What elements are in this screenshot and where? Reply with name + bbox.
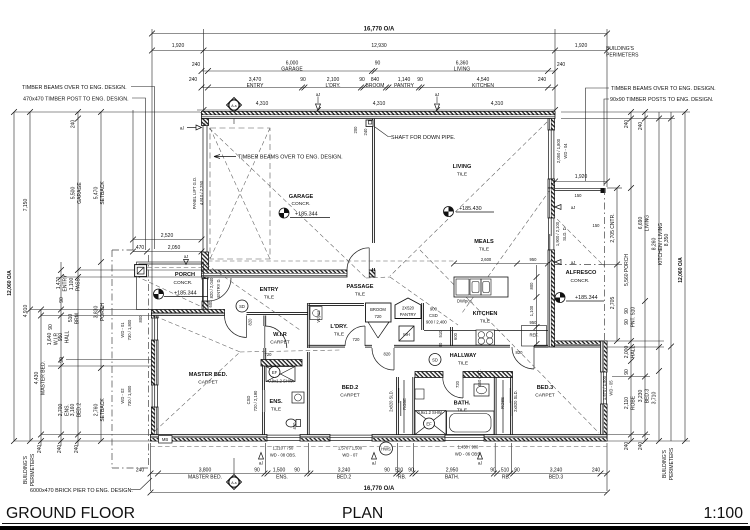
- wall bath/robe2 divider: [494, 377, 496, 435]
- roof dash master ridge: [240, 350, 340, 352]
- aJ marker garage nw: [180, 125, 202, 131]
- svg-text:90: 90: [300, 77, 306, 83]
- ens shower: [266, 367, 295, 382]
- wall garage west jambs: [202, 119, 209, 126]
- bottom dim row rooms: [136, 468, 610, 481]
- svg-text:WD - 01: WD - 01: [120, 322, 125, 338]
- svg-text:1,450 / 900: 1,450 / 900: [458, 445, 479, 450]
- fridge space: [522, 326, 547, 347]
- svg-text:WD - 07: WD - 07: [342, 453, 358, 458]
- wall top north: [202, 112, 556, 119]
- wall ens/bed2 divider: [307, 352, 309, 435]
- svg-text:4,910: 4,910: [23, 305, 29, 318]
- svg-text:510: 510: [395, 468, 404, 474]
- sink double bowl: [470, 279, 481, 295]
- svg-text:90: 90: [384, 468, 390, 474]
- svg-text:CSD: CSD: [246, 396, 251, 405]
- svg-text:240: 240: [538, 77, 547, 83]
- svg-text:12,060 O/A: 12,060 O/A: [678, 257, 684, 283]
- garage panel door dashed zone: [210, 128, 270, 259]
- wall bed2 north with 820 door: [365, 345, 372, 347]
- svg-text:PANTRY: PANTRY: [400, 312, 417, 317]
- right dim col 3 living/bed3: [638, 109, 651, 450]
- svg-text:2x820 SLD.: 2x820 SLD.: [513, 390, 518, 412]
- svg-text:90: 90: [359, 77, 365, 83]
- svg-text:730 / 1,800: 730 / 1,800: [127, 385, 132, 406]
- svg-text:aJ: aJ: [571, 260, 575, 265]
- svg-text:RB.: RB.: [398, 475, 406, 481]
- roof dash master hip lower: [155, 352, 240, 431]
- section marker A-s top: [227, 98, 242, 125]
- svg-text:1,100: 1,100: [529, 305, 534, 316]
- left dim col 5 garage: [71, 109, 84, 453]
- svg-text:BROOM: BROOM: [366, 83, 385, 89]
- svg-text:240: 240: [592, 468, 601, 474]
- svg-text:A-s: A-s: [231, 104, 237, 108]
- bottom dim 16,770 O/A: [148, 486, 610, 495]
- svg-text:PANEL LIFT G.D.: PANEL LIFT G.D.: [192, 177, 197, 209]
- svg-text:PERIMETERS: PERIMETERS: [30, 453, 36, 486]
- svg-text:90: 90: [417, 77, 423, 83]
- robe bed3 shelf: [502, 380, 504, 433]
- svg-text:PERIMETERS: PERIMETERS: [606, 53, 639, 59]
- alfresco north edge: [555, 187, 605, 189]
- svg-text:90: 90: [624, 319, 630, 325]
- window WD-05 bed3 east: [601, 372, 606, 404]
- svg-text:5,560 PORCH: 5,560 PORCH: [624, 254, 630, 286]
- svg-text:2,700: 2,700: [58, 404, 64, 417]
- svg-text:BED.3: BED.3: [645, 389, 651, 404]
- wall robe2/bed3 divider: [511, 377, 513, 435]
- svg-text:950: 950: [530, 257, 538, 262]
- wall ldry north: [308, 304, 364, 306]
- svg-text:240: 240: [638, 122, 644, 131]
- svg-text:240: 240: [638, 442, 644, 451]
- right dim col 4 kitchen/living 8,260 + 3,710: [652, 112, 665, 444]
- svg-text:450 CNT.: 450 CNT.: [477, 369, 482, 386]
- svg-text:4,310: 4,310: [373, 101, 386, 107]
- garage door X dashed: [210, 128, 270, 259]
- eaves dash south: [151, 446, 608, 448]
- svg-text:W.I.R: W.I.R: [273, 332, 287, 338]
- svg-text:950: 950: [530, 320, 538, 325]
- svg-text:SETBACK: SETBACK: [100, 398, 106, 422]
- svg-text:TILE: TILE: [355, 292, 365, 298]
- ef fan ens: [269, 367, 280, 378]
- left dim col 12,060 O/A: [7, 109, 17, 444]
- dim line entry/ldry/broom/pantry/kitchen: [189, 77, 558, 90]
- svg-text:PASSAGE: PASSAGE: [347, 284, 374, 290]
- svg-text:5,470: 5,470: [94, 187, 100, 200]
- robe bed2 shelf: [403, 380, 405, 433]
- svg-text:TILE: TILE: [479, 247, 489, 253]
- robe bed3 sliding doors: [509, 388, 511, 403]
- svg-text:WD - 05: WD - 05: [609, 380, 614, 396]
- svg-text:240: 240: [624, 442, 630, 451]
- svg-text:450: 450: [292, 422, 297, 430]
- kitchen island bench: [454, 277, 508, 297]
- beam dash over garage door: [208, 260, 455, 262]
- aJ markers top: [316, 92, 321, 111]
- svg-text:MH: MH: [403, 332, 409, 337]
- svg-text:4,310: 4,310: [256, 101, 269, 107]
- svg-text:SD: SD: [239, 304, 245, 309]
- svg-text:PNT.: PNT.: [631, 317, 637, 328]
- svg-text:LIVING: LIVING: [453, 164, 472, 170]
- shaft for downpipe box: [366, 120, 373, 127]
- svg-text:90: 90: [48, 324, 54, 330]
- svg-text:BUILDING'S: BUILDING'S: [662, 449, 668, 478]
- svg-text:3,710: 3,710: [652, 392, 658, 405]
- svg-text:2,050 / 1,800: 2,050 / 1,800: [556, 138, 561, 163]
- svg-text:GARAGE: GARAGE: [77, 182, 83, 204]
- level marker garage: [279, 208, 289, 218]
- svg-text:7,150: 7,150: [23, 199, 29, 212]
- svg-text:2,110: 2,110: [624, 397, 630, 409]
- svg-text:L'DRY.: L'DRY.: [330, 324, 348, 330]
- window WD-04 living east: [549, 130, 554, 179]
- wall master/ens divider: [263, 366, 265, 390]
- svg-text:510: 510: [501, 468, 510, 474]
- svg-text:MASTER BED.: MASTER BED.: [189, 372, 228, 378]
- svg-text:BROOM: BROOM: [370, 307, 386, 312]
- svg-text:SLD. D: SLD. D: [562, 227, 567, 240]
- svg-text:WD - 04: WD - 04: [563, 143, 568, 159]
- alfresco post NE: [601, 188, 606, 193]
- wall entry west with front door opening: [202, 277, 208, 279]
- svg-text:PANTRY: PANTRY: [394, 83, 414, 89]
- svg-text:470x470 TIMBER POST TO ENG. DE: 470x470 TIMBER POST TO ENG. DESIGN.: [23, 97, 129, 103]
- garage west dims 2,520 470 2,050: [130, 233, 204, 242]
- svg-text:ENS.: ENS.: [276, 475, 288, 481]
- svg-text:90: 90: [624, 369, 630, 375]
- svg-text:510: 510: [438, 330, 443, 338]
- svg-text:90: 90: [514, 468, 520, 474]
- svg-text:BED.2: BED.2: [342, 385, 358, 391]
- alfresco east roof dashdot line: [604, 188, 606, 341]
- svg-text:90: 90: [59, 297, 65, 303]
- svg-text:90: 90: [375, 61, 381, 67]
- svg-text:CSD: CSD: [429, 313, 438, 318]
- svg-text:90: 90: [438, 342, 443, 347]
- wall wir south hatched: [261, 360, 302, 367]
- svg-text:0.9x1.2 SHW.: 0.9x1.2 SHW.: [417, 410, 442, 415]
- wall south (bottom) segments: [151, 435, 268, 442]
- roof dash valley to bed3 corner: [420, 250, 599, 433]
- svg-text:150: 150: [575, 193, 583, 198]
- svg-text:12,930: 12,930: [371, 43, 387, 49]
- svg-text:510: 510: [68, 314, 74, 323]
- svg-text:510: 510: [631, 307, 637, 316]
- svg-text:BED.3: BED.3: [549, 475, 564, 481]
- svg-text:KITCHEN: KITCHEN: [473, 311, 498, 317]
- svg-text:TILE: TILE: [271, 407, 281, 413]
- dim line 16,770 O/A top: [149, 27, 610, 37]
- svg-text:ENTRY: ENTRY: [247, 83, 265, 89]
- kitchen small dims: [451, 257, 520, 266]
- svg-text:WD - 08 OBS.: WD - 08 OBS.: [270, 453, 296, 458]
- svg-text:aJ: aJ: [571, 205, 575, 210]
- window WD-01 west: [152, 318, 157, 340]
- wall living east lower stub: [548, 179, 555, 188]
- svg-text:720: 720: [353, 337, 361, 342]
- svg-text:900: 900: [430, 307, 438, 312]
- svg-text:2,600: 2,600: [481, 257, 492, 262]
- window WD-06 bath south: [445, 435, 484, 440]
- svg-text:MEALS: MEALS: [474, 239, 494, 245]
- svg-text:3,240: 3,240: [338, 468, 351, 474]
- svg-text:HALL: HALL: [65, 331, 71, 344]
- svg-text:900 / 2,400: 900 / 2,400: [426, 320, 447, 325]
- svg-text:TIMBER BEAMS OVER TO ENG. DESI: TIMBER BEAMS OVER TO ENG. DESIGN.: [238, 155, 343, 161]
- wall meals/kitchen east lower: [548, 250, 555, 347]
- svg-text:GARAGE: GARAGE: [281, 67, 303, 73]
- svg-text:2x820 SLD.: 2x820 SLD.: [389, 390, 394, 412]
- svg-text:HALLWAY: HALLWAY: [450, 353, 477, 359]
- left dim col 6 setbacks/porch: [94, 109, 107, 444]
- eaves dashdot west: [111, 250, 113, 468]
- svg-text:8,260: 8,260: [652, 238, 658, 251]
- svg-text:240: 240: [74, 445, 80, 454]
- svg-text:TILE: TILE: [457, 408, 467, 414]
- wall alfresco south: [555, 341, 606, 347]
- window WD-02 west: [152, 385, 157, 407]
- ens basin: [292, 392, 304, 403]
- svg-text:REF.: REF.: [530, 333, 539, 338]
- svg-text:820: 820: [248, 318, 253, 326]
- svg-text:BUILDING'S: BUILDING'S: [23, 455, 29, 484]
- svg-text:470: 470: [136, 245, 145, 251]
- roof dash passage diagonal: [390, 277, 458, 325]
- front door entry 820/2040: [203, 279, 208, 302]
- svg-text:1,500: 1,500: [273, 468, 286, 474]
- svg-text:240: 240: [624, 120, 630, 129]
- bottom black bar: [0, 526, 750, 530]
- svg-text:PORCH: PORCH: [100, 303, 106, 321]
- svg-text:RB.: RB.: [502, 475, 510, 481]
- svg-text:1,570 / 1,500: 1,570 / 1,500: [602, 375, 607, 400]
- bath door 720: [443, 378, 463, 399]
- svg-text:820: 820: [516, 350, 524, 355]
- svg-text:L'DRY.: L'DRY.: [326, 83, 341, 89]
- svg-text:TILE: TILE: [457, 172, 467, 178]
- svg-text:CONCR.: CONCR.: [571, 278, 590, 284]
- svg-text:1,920: 1,920: [172, 43, 185, 49]
- svg-text:WD - 06 OBS.: WD - 06 OBS.: [455, 452, 481, 457]
- svg-text:240: 240: [71, 120, 77, 129]
- svg-text:8,350: 8,350: [664, 234, 670, 247]
- csd master-ens: [261, 390, 263, 412]
- right dim col 5 8,350: [664, 112, 674, 441]
- svg-text:1,920: 1,920: [575, 43, 588, 49]
- svg-text:CARPET: CARPET: [270, 340, 290, 346]
- svg-text:ROBE: ROBE: [500, 397, 505, 409]
- svg-text:1:100: 1:100: [703, 505, 743, 522]
- roof dash alfresco diagonal: [552, 214, 604, 266]
- svg-text:ROBE: ROBE: [402, 398, 407, 410]
- ef fan bath: [424, 418, 435, 429]
- svg-text:800: 800: [529, 282, 534, 290]
- svg-text:ENS.: ENS.: [269, 399, 283, 405]
- svg-text:12,060 O/A: 12,060 O/A: [7, 270, 13, 296]
- svg-text:ALFRESCO: ALFRESCO: [566, 270, 597, 276]
- window WD-08 ens south: [267, 435, 300, 440]
- sliding door meals-alfresco: [549, 218, 554, 250]
- svg-text:BED.2: BED.2: [77, 403, 83, 418]
- roof dash master hip upper: [155, 316, 240, 352]
- svg-text:1,100: 1,100: [69, 278, 75, 291]
- robe bed2 sliding doors: [398, 388, 400, 403]
- left extension horizontals: [14, 111, 200, 113]
- svg-text:16,770 O/A: 16,770 O/A: [364, 27, 395, 33]
- svg-text:W.I.R: W.I.R: [54, 333, 60, 346]
- svg-text:aJ: aJ: [478, 461, 482, 466]
- svg-text:DW/pos.: DW/pos.: [457, 299, 473, 304]
- right dim col 2 porch/pnt/hall/robe: [624, 109, 637, 450]
- aJ marker west wall: [184, 254, 189, 265]
- wall ldry south with 720 door: [308, 345, 345, 347]
- svg-text:16,770 O/A: 16,770 O/A: [364, 486, 395, 492]
- svg-text:W/pos.: W/pos.: [316, 310, 321, 323]
- svg-text:PERIMETERS: PERIMETERS: [669, 447, 675, 480]
- right dim col alfresco 2,705: [610, 185, 620, 344]
- svg-text:2,760: 2,760: [94, 404, 100, 417]
- svg-text:aJ: aJ: [372, 461, 376, 466]
- kitchen south bench edge: [424, 330, 548, 332]
- svg-text:HWS: HWS: [381, 447, 391, 452]
- garage panel lift door opening lines: [202, 126, 204, 253]
- svg-text:240: 240: [37, 445, 43, 454]
- roof dash over porch: [140, 267, 203, 269]
- svg-text:720: 720: [265, 352, 273, 357]
- bath tub: [447, 411, 495, 435]
- svg-text:MB: MB: [162, 437, 168, 442]
- wall living east upper: [548, 119, 555, 131]
- svg-text:EF: EF: [426, 422, 432, 427]
- svg-text:1,900 / 2,100: 1,900 / 2,100: [555, 221, 560, 246]
- dim line 1,920 / 12,930 / 1,920: [149, 43, 610, 53]
- wall garage south / porch north: [202, 270, 348, 277]
- svg-text:600: 600: [208, 300, 213, 308]
- section marker A-s bottom: [227, 458, 242, 490]
- svg-text:CONCR.: CONCR.: [174, 280, 193, 286]
- svg-text:240: 240: [136, 468, 145, 474]
- roof dash garage diagonal: [204, 123, 366, 278]
- roof dash entry diagonal: [206, 264, 300, 330]
- wall kitchen bench west: [451, 327, 453, 346]
- ens wc: [286, 419, 301, 427]
- svg-text:LIVING: LIVING: [645, 215, 651, 232]
- svg-text:90: 90: [59, 357, 65, 363]
- svg-text:SHAFT FOR DOWN PIPE.: SHAFT FOR DOWN PIPE.: [391, 135, 455, 141]
- svg-text:BED.2: BED.2: [337, 475, 352, 481]
- wall bed3 east lower: [601, 404, 608, 441]
- door master bed: [225, 316, 247, 338]
- level marker living: [444, 207, 454, 217]
- svg-text:3,230: 3,230: [638, 390, 644, 403]
- svg-text:ROBE: ROBE: [631, 395, 637, 410]
- bath shower: [415, 411, 446, 435]
- laundry trough: [310, 307, 322, 320]
- svg-text:90x90 TIMBER POSTS TO ENG. DES: 90x90 TIMBER POSTS TO ENG. DESIGN.: [610, 97, 713, 103]
- wir west wall: [264, 316, 266, 327]
- svg-text:4,430: 4,430: [34, 372, 40, 385]
- svg-text:1,470: 1,470: [56, 277, 62, 290]
- svg-text:+185.344: +185.344: [174, 291, 197, 297]
- svg-text:90: 90: [254, 468, 260, 474]
- left dim col 4 entry/pass/wir/hall: [47, 262, 83, 453]
- wall wir east / ldry west: [307, 303, 309, 348]
- wir door 720: [264, 326, 266, 348]
- left dim col 7,150 / 4,910: [23, 109, 33, 444]
- mh manhole: [399, 326, 414, 341]
- svg-text:720 / 2,190: 720 / 2,190: [253, 390, 258, 411]
- svg-text:aJ: aJ: [316, 92, 320, 97]
- svg-text:aJ: aJ: [259, 461, 263, 466]
- wall kitchen/hall with 820 door to bed3: [424, 345, 510, 347]
- svg-text:MASTER BED.: MASTER BED.: [188, 475, 222, 481]
- bath vanity: [474, 384, 489, 396]
- svg-text:6000x470 BRICK PIER TO ENG. DE: 6000x470 BRICK PIER TO ENG. DESIGN.: [30, 488, 133, 494]
- svg-text:BRM.: BRM.: [75, 312, 81, 325]
- level marker porch: [154, 289, 164, 299]
- svg-text:600: 600: [453, 332, 458, 340]
- wall pantry/kitchen divider: [422, 303, 424, 330]
- wall bed3 east upper: [601, 341, 608, 372]
- roof dash alfresco NW to kitchen: [462, 190, 550, 313]
- right extension horizontals: [561, 111, 690, 113]
- svg-text:PLAN: PLAN: [342, 505, 383, 522]
- dishwasher: [456, 279, 469, 295]
- wall garage/living divider: [373, 119, 375, 244]
- level marker alfresco: [555, 293, 565, 303]
- extension verticals top: [151, 29, 153, 309]
- wall master bed north: [152, 310, 225, 316]
- pantry 2x520: [395, 298, 421, 319]
- alfresco 1,920 dim: [552, 174, 610, 184]
- svg-text:820 / 2,040: 820 / 2,040: [209, 277, 214, 298]
- svg-text:2,000: 2,000: [624, 346, 630, 359]
- svg-text:BED.3: BED.3: [537, 385, 553, 391]
- sd detector hallway: [429, 354, 441, 366]
- svg-text:2,520: 2,520: [161, 233, 174, 239]
- wall robe/bath divider: [413, 377, 415, 435]
- wall west masterbed segments: [152, 310, 159, 319]
- wall entry/wir divider: [247, 313, 309, 315]
- svg-text:TIMBER BEAMS OVER TO ENG. DESI: TIMBER BEAMS OVER TO ENG. DESIGN.: [22, 85, 127, 91]
- svg-text:HALL: HALL: [631, 346, 637, 359]
- svg-text:720: 720: [455, 380, 460, 388]
- svg-text:6,690: 6,690: [638, 217, 644, 230]
- hws unit: [380, 442, 393, 455]
- svg-text:aJ: aJ: [180, 126, 184, 131]
- svg-text:2,050: 2,050: [168, 245, 181, 251]
- right dim col 12,060 O/A: [678, 109, 688, 444]
- sd detector entry: [236, 300, 248, 312]
- alfresco centre dashed line: [555, 264, 605, 266]
- broom closet: [366, 303, 392, 322]
- svg-text:PORCH: PORCH: [175, 272, 195, 278]
- svg-text:3,830: 3,830: [94, 306, 100, 319]
- svg-text:3,240: 3,240: [550, 468, 563, 474]
- svg-text:4,810 / 2,250: 4,810 / 2,250: [199, 180, 204, 205]
- svg-text:90: 90: [624, 308, 630, 314]
- dim line 4,310 x3: [197, 101, 558, 113]
- svg-text:TILE: TILE: [458, 361, 468, 367]
- brick pier 470x470: [135, 265, 147, 277]
- svg-text:ENTRY D.: ENTRY D.: [216, 278, 221, 297]
- svg-text:2,705: 2,705: [610, 297, 616, 310]
